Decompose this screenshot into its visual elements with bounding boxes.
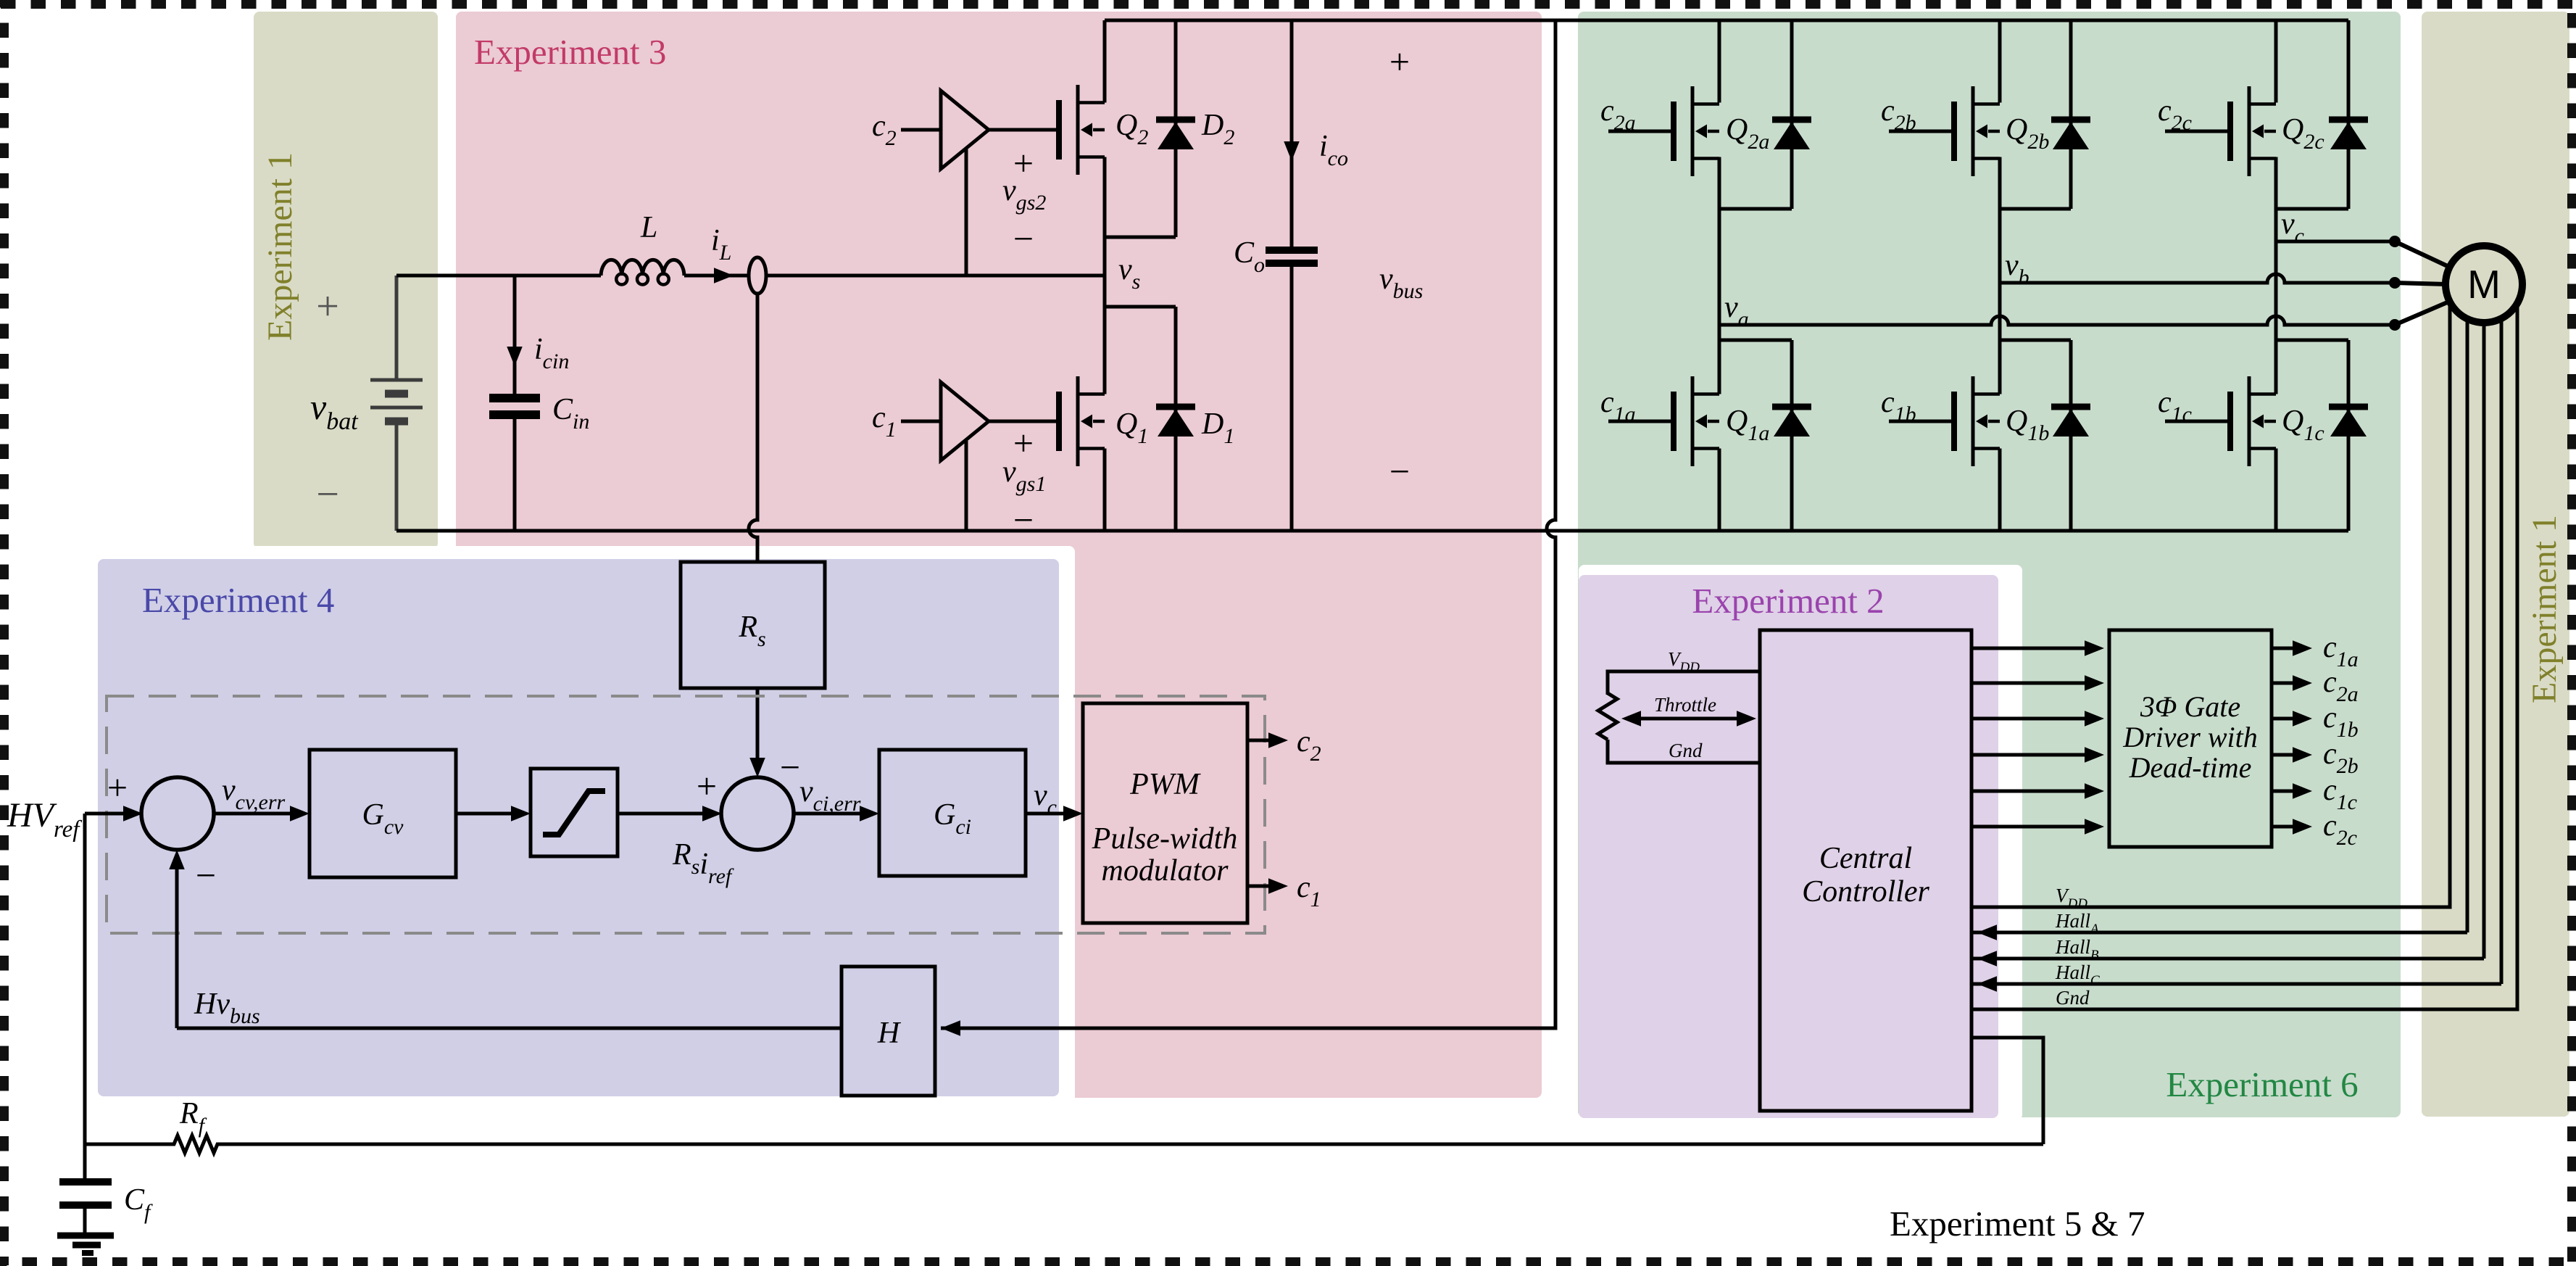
svg-text:+: +: [1389, 41, 1410, 82]
svg-text:Experiment 3: Experiment 3: [474, 32, 666, 72]
svg-text:Experiment 1: Experiment 1: [2525, 515, 2564, 703]
svg-text:Controller: Controller: [1802, 875, 1929, 909]
svg-text:Experiment 1: Experiment 1: [261, 152, 299, 341]
svg-text:−: −: [196, 855, 216, 895]
svg-text:H: H: [877, 1017, 902, 1050]
svg-text:Experiment 6: Experiment 6: [2166, 1064, 2358, 1104]
svg-text:L: L: [640, 211, 657, 244]
svg-text:Dead-time: Dead-time: [2129, 751, 2252, 784]
svg-text:Gnd: Gnd: [1669, 740, 1703, 761]
svg-text:Experiment 4: Experiment 4: [142, 580, 334, 620]
svg-text:PWM: PWM: [1129, 768, 1201, 801]
svg-text:HVref: HVref: [7, 796, 82, 843]
svg-text:−: −: [316, 472, 339, 517]
svg-text:+: +: [697, 766, 717, 806]
svg-text:modulator: modulator: [1101, 854, 1229, 888]
svg-text:3Φ Gate: 3Φ Gate: [2140, 690, 2240, 723]
svg-text:−: −: [780, 747, 800, 787]
svg-text:Experiment 5 & 7: Experiment 5 & 7: [1890, 1204, 2145, 1244]
svg-text:M: M: [2467, 262, 2501, 307]
svg-text:Experiment 2: Experiment 2: [1692, 581, 1884, 621]
svg-text:Cf: Cf: [124, 1183, 153, 1224]
svg-text:−: −: [1389, 451, 1410, 492]
svg-text:Gnd: Gnd: [2056, 987, 2090, 1009]
svg-text:Driver with: Driver with: [2122, 721, 2258, 753]
svg-text:+: +: [1013, 143, 1034, 183]
svg-text:−: −: [1013, 218, 1034, 259]
svg-text:+: +: [316, 284, 339, 329]
svg-text:Central: Central: [1819, 842, 1912, 875]
svg-text:+: +: [107, 767, 128, 808]
svg-text:Pulse-width: Pulse-width: [1092, 822, 1238, 856]
svg-text:+: +: [1013, 423, 1034, 463]
svg-text:−: −: [1013, 500, 1034, 540]
svg-text:Throttle: Throttle: [1654, 694, 1716, 716]
